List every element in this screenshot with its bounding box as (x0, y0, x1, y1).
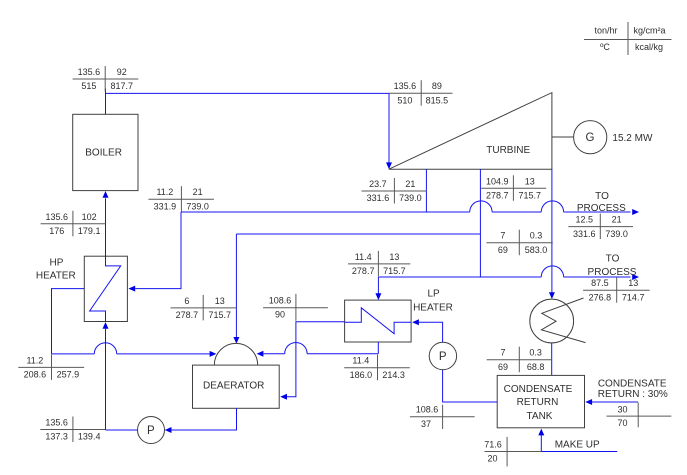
svg-text:TURBINE: TURBINE (486, 145, 530, 156)
svg-text:HEATER: HEATER (413, 302, 453, 313)
svg-text:37: 37 (421, 419, 431, 429)
svg-text:11.4: 11.4 (352, 356, 369, 366)
svg-text:P: P (439, 351, 447, 363)
svg-text:186.0: 186.0 (350, 370, 373, 380)
svg-text:ºC: ºC (600, 42, 610, 52)
arrow into deaerator dome (233, 337, 239, 344)
arrow into boiler bottom (103, 191, 109, 198)
svg-text:276.8: 276.8 (589, 292, 612, 302)
svg-text:214.3: 214.3 (382, 370, 405, 380)
deaerator box (193, 365, 280, 408)
table lp drain 11.4 186.0 214.3 (344, 355, 410, 381)
svg-text:139.4: 139.4 (78, 432, 101, 442)
svg-text:30: 30 (617, 404, 627, 414)
svg-text:kg/cm²a: kg/cm²a (633, 26, 665, 36)
turbine exhaust to condenser (551, 169, 553, 292)
generator shaft line (552, 136, 574, 138)
svg-text:kcal/kg: kcal/kg (635, 42, 663, 52)
svg-text:583.0: 583.0 (525, 245, 548, 255)
svg-text:331.6: 331.6 (367, 193, 390, 203)
svg-text:68.8: 68.8 (527, 362, 545, 372)
svg-text:13: 13 (525, 176, 535, 186)
lp drain line (264, 342, 379, 354)
legend units table (584, 22, 672, 55)
hp heater steam branch (135, 212, 181, 289)
svg-text:TANK: TANK (527, 411, 553, 422)
arrow into tank right (585, 399, 592, 405)
svg-text:715.7: 715.7 (209, 310, 232, 320)
svg-text:92: 92 (117, 67, 127, 77)
svg-text:137.3: 137.3 (45, 432, 68, 442)
table condenser outlet 7 0.3 69 68.8 (487, 347, 552, 373)
svg-text:278.7: 278.7 (352, 266, 375, 276)
svg-text:817.7: 817.7 (110, 81, 133, 91)
condensate return supply line (592, 401, 638, 403)
svg-text:739.0: 739.0 (186, 201, 209, 211)
deaerator dome (214, 343, 257, 365)
svg-text:HP: HP (50, 258, 64, 269)
svg-text:69: 69 (498, 362, 508, 372)
pump1 discharge (106, 429, 138, 431)
arrow into pump1 (165, 427, 172, 433)
arrow into hp heater (128, 286, 135, 292)
svg-text:515: 515 (81, 81, 96, 91)
table deaerator steam 6 13 278.7 715.7 (171, 295, 237, 321)
svg-text:135.6: 135.6 (45, 418, 68, 428)
svg-text:21: 21 (193, 187, 203, 197)
svg-text:TO: TO (606, 253, 620, 264)
svg-text:RETURN: RETURN (517, 397, 559, 408)
svg-text:104.9: 104.9 (486, 176, 509, 186)
svg-text:0.3: 0.3 (529, 348, 542, 358)
svg-text:0.3: 0.3 (530, 231, 543, 241)
svg-text:176: 176 (49, 226, 64, 236)
table extraction2 104.9 13 278.7 715.7 (481, 175, 546, 201)
svg-text:208.6: 208.6 (24, 370, 47, 380)
table to process2 87.5 13 276.8 714.7 (583, 277, 650, 303)
svg-text:21: 21 (405, 179, 415, 189)
makeup line (541, 435, 617, 451)
svg-text:135.6: 135.6 (394, 81, 417, 91)
svg-text:87.5: 87.5 (591, 278, 609, 288)
svg-text:739.0: 739.0 (399, 193, 422, 203)
svg-text:CONDENSATE: CONDENSATE (598, 379, 667, 390)
svg-text:23.7: 23.7 (369, 179, 387, 189)
svg-text:89: 89 (432, 81, 442, 91)
svg-text:P: P (147, 425, 155, 437)
svg-text:MAKE UP: MAKE UP (555, 439, 600, 450)
label HP HEATER (36, 258, 76, 282)
svg-text:71.6: 71.6 (484, 439, 502, 449)
table makeup 71.6 20 (484, 437, 541, 467)
svg-text:715.7: 715.7 (519, 191, 542, 201)
svg-text:DEAERATOR: DEAERATOR (203, 381, 264, 392)
svg-text:70: 70 (617, 418, 627, 428)
table return 30 70 (607, 403, 672, 429)
arrow to process 2 (632, 274, 639, 280)
hp heater box (84, 256, 127, 321)
table to process1 12.5 21 331.6 739.0 (568, 214, 633, 240)
table hp extraction 11.2 21 331.9 739.0 (148, 186, 214, 212)
label TO PROCESS 1 (577, 191, 626, 214)
svg-text:108.6: 108.6 (269, 296, 292, 306)
header line 13kg to process (378, 266, 630, 277)
svg-text:135.6: 135.6 (45, 212, 68, 222)
deaerator steam header (236, 233, 480, 235)
arrow lp drain into dome (257, 351, 264, 357)
svg-text:90: 90 (275, 310, 285, 320)
label LP HEATER (413, 289, 453, 314)
svg-text:G: G (586, 132, 595, 144)
generator rating 15.2 MW (612, 133, 653, 144)
svg-text:LP: LP (427, 289, 440, 300)
arrow into turbine inlet (386, 162, 392, 169)
main steam line boiler to turbine (106, 89, 390, 163)
arrow into hp heater bottom (103, 322, 109, 329)
table boiler outlet 135.6 92 515 817.7 (73, 66, 139, 92)
svg-text:278.7: 278.7 (176, 310, 199, 320)
arrow into lp heater top (375, 293, 381, 300)
svg-text:13: 13 (215, 296, 225, 306)
lp heater box (345, 300, 412, 342)
pump2 discharge (419, 322, 443, 342)
condenser circle (530, 299, 574, 343)
arrow hp drain into dome (210, 351, 217, 357)
label condensate return 30% (598, 379, 668, 401)
arrow to process 1 (632, 209, 639, 215)
table turbine inlet 135.6 89 510 815.5 (389, 80, 453, 106)
arrow makeup into tank (538, 429, 544, 436)
svg-text:PROCESS: PROCESS (577, 203, 626, 214)
hp heater coil (90, 198, 121, 321)
svg-text:11.4: 11.4 (355, 252, 372, 262)
svg-text:102: 102 (82, 212, 97, 222)
svg-text:715.7: 715.7 (383, 266, 406, 276)
table pump2 108.6 37 (410, 405, 475, 429)
svg-text:179.1: 179.1 (78, 226, 101, 236)
pump 1 circle (138, 417, 165, 444)
table lp steam 11.4 13 278.7 715.7 (348, 251, 410, 277)
svg-text:739.0: 739.0 (605, 229, 628, 239)
header line 21kg to process (181, 201, 631, 212)
svg-text:278.7: 278.7 (486, 191, 509, 201)
extraction 2 drop line (479, 169, 481, 277)
hp drain line (52, 289, 210, 354)
svg-text:7: 7 (500, 231, 505, 241)
svg-text:15.2 MW: 15.2 MW (612, 133, 653, 144)
svg-text:11.2: 11.2 (156, 187, 173, 197)
lp heater steam drop (377, 277, 379, 294)
svg-text:510: 510 (397, 95, 412, 105)
svg-text:11.2: 11.2 (26, 355, 43, 365)
svg-text:69: 69 (498, 245, 508, 255)
svg-text:13: 13 (389, 252, 399, 262)
table pump1 135.6 137.3 139.4 (40, 417, 105, 443)
table condenser inlet 7 0.3 69 583.0 (486, 230, 552, 256)
svg-text:21: 21 (612, 215, 622, 225)
table hp feed out 135.6 102 176 179.1 (41, 211, 106, 237)
generator G circle (574, 121, 607, 154)
table extraction1 23.7 21 331.6 739.0 (362, 178, 427, 204)
svg-text:13: 13 (628, 278, 638, 288)
condensate return tank box (497, 375, 584, 427)
lp condensate to deaerator (287, 322, 345, 397)
svg-text:815.5: 815.5 (426, 95, 449, 105)
svg-text:ton/hr: ton/hr (594, 26, 617, 36)
arrow into lp heater right (412, 319, 419, 325)
extraction 1 drop line (425, 169, 427, 212)
label MAKE UP (555, 439, 600, 450)
svg-text:135.6: 135.6 (78, 67, 101, 77)
svg-text:PROCESS: PROCESS (588, 267, 637, 278)
svg-text:331.6: 331.6 (573, 229, 596, 239)
table lp condensate 108.6 90 (263, 294, 328, 321)
arrow into condenser (549, 292, 555, 299)
svg-text:714.7: 714.7 (622, 292, 645, 302)
svg-text:108.6: 108.6 (416, 405, 439, 415)
svg-text:HEATER: HEATER (36, 271, 76, 282)
label TO PROCESS 2 (588, 253, 637, 278)
tank suction line (443, 370, 498, 402)
boiler box (73, 114, 138, 190)
turbine triangle (389, 93, 552, 170)
svg-text:20: 20 (487, 454, 497, 464)
svg-text:CONDENSATE: CONDENSATE (504, 384, 573, 395)
svg-text:TO: TO (595, 191, 609, 202)
svg-text:12.5: 12.5 (576, 215, 594, 225)
svg-text:331.9: 331.9 (154, 201, 177, 211)
svg-text:257.9: 257.9 (57, 370, 80, 380)
svg-text:RETURN : 30%: RETURN : 30% (598, 389, 668, 400)
condenser coil (541, 298, 585, 343)
deaerator steam drop (235, 234, 237, 337)
table hp drain 11.2 208.6 257.9 (18, 354, 84, 380)
lp heater coil (345, 308, 412, 334)
arrow into deaerator right (280, 394, 287, 400)
svg-text:6: 6 (184, 296, 189, 306)
svg-text:7: 7 (500, 348, 505, 358)
pump 2 circle (429, 342, 456, 369)
svg-text:BOILER: BOILER (85, 147, 122, 158)
deaerator outlet (172, 408, 237, 430)
feedwater riser (105, 329, 107, 430)
condenser outlet line (551, 343, 553, 376)
